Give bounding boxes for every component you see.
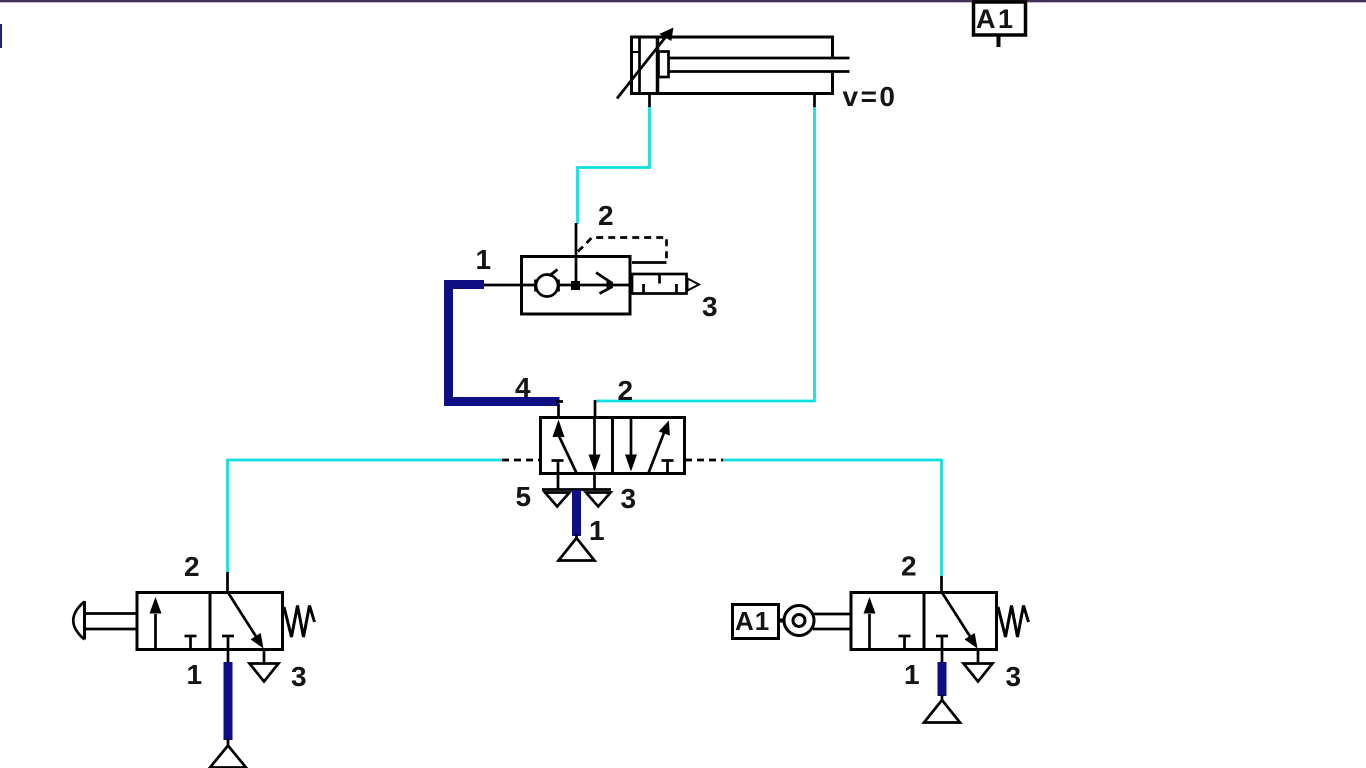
- port 1 stub: [941, 650, 944, 664]
- 1S1 port 1 pressurized: [224, 662, 233, 740]
- QEV body: [522, 257, 631, 315]
- svg-text:1: 1: [187, 659, 203, 690]
- bottom port stubs: [557, 474, 560, 490]
- 3/2-way valve 1S2 with roller and spring return: [733, 593, 1029, 682]
- QEV exhaust arrow: [596, 273, 613, 284]
- right position: blocked port: [662, 459, 674, 462]
- port 3 exhaust: [977, 650, 980, 664]
- svg-text:1: 1: [476, 244, 492, 275]
- port 1 stub: [227, 650, 230, 664]
- wire cyan: cylinder left port to QEV port 2: [578, 107, 650, 224]
- QEV quick-exhaust valve 1V: [484, 223, 699, 314]
- pilot dashes left: [502, 459, 540, 462]
- 3/2-way valve 1S1 with push button and spring return: [73, 593, 314, 682]
- 5/2 port 1 pressurized line: [572, 490, 581, 536]
- svg-text:1: 1: [589, 515, 605, 546]
- left position: port 5 blocked: [552, 459, 564, 462]
- svg-text:5: 5: [516, 481, 532, 512]
- left position: flow 1 to 4: [553, 420, 565, 438]
- cushioning adjustment arrow: [617, 37, 666, 99]
- roller: [784, 606, 814, 636]
- svg-text:3: 3: [621, 483, 637, 514]
- exhaust triangle port 3: [586, 493, 611, 507]
- cylinder port stubs: [648, 94, 651, 109]
- pilot dashes right: [685, 459, 724, 462]
- valve body: [851, 593, 997, 650]
- port 3 exhaust: [263, 650, 266, 664]
- window top border line: [0, 0, 1366, 2]
- svg-text:2: 2: [618, 375, 634, 406]
- pilot wire cyan right: 5/2 to valve 1S2 port 2: [723, 460, 942, 577]
- QEV mid flow line: [484, 284, 630, 287]
- svg-text:2: 2: [901, 551, 917, 582]
- pilot wire cyan left: 5/2 to valve 1S1 port 2: [228, 460, 503, 573]
- right position: down arrow: [630, 418, 633, 457]
- left position: [868, 614, 871, 650]
- silencer on port 3: [632, 274, 687, 294]
- 1S2 port 1 pressurized: [938, 662, 947, 696]
- svg-text:v=0: v=0: [843, 81, 898, 112]
- QEV check circle: [536, 275, 558, 297]
- exhaust triangle port 5: [545, 493, 570, 507]
- svg-text:A1: A1: [976, 4, 1016, 34]
- svg-text:3: 3: [702, 291, 718, 322]
- svg-text:2: 2: [598, 200, 614, 231]
- 5/2 port 2 stub: [594, 400, 597, 418]
- svg-text:A1: A1: [735, 606, 770, 636]
- spring return: [998, 606, 1029, 638]
- wire cyan: cylinder right port to 5/2 valve port 2: [596, 107, 815, 401]
- right position: diagonal flow with arrow: [649, 425, 668, 473]
- spring return: [284, 606, 315, 638]
- left position: flow 2 to 3: [593, 418, 596, 457]
- svg-text:3: 3: [291, 661, 307, 692]
- supply triangle port 1: [559, 538, 595, 561]
- 5/2-way valve, pilot operated both sides: [502, 418, 724, 507]
- QEV junction dot: [571, 281, 580, 290]
- svg-text:1: 1: [904, 659, 920, 690]
- svg-text:2: 2: [184, 551, 200, 582]
- 5/2 port 4 stub: [557, 404, 560, 418]
- marker box A1: [733, 605, 779, 639]
- left position: flow 1 to 2 arrow: [154, 614, 157, 650]
- window left edge artifact: [0, 24, 2, 48]
- right position: flow 2 to 3 diagonal: [228, 593, 257, 639]
- QEV pilot dashed line: [578, 238, 667, 262]
- svg-text:3: 3: [1006, 661, 1022, 692]
- cylinder 1A double-acting with adjustable cushioning: [630, 36, 850, 96]
- marker A1 top: [974, 2, 1026, 47]
- push button actuator: [83, 601, 86, 640]
- wire working pressure (navy): QEV port1 to 5/2 port 4: [449, 285, 560, 402]
- svg-text:4: 4: [515, 372, 531, 403]
- right position: [942, 593, 971, 639]
- QEV port 2 line: [575, 223, 578, 286]
